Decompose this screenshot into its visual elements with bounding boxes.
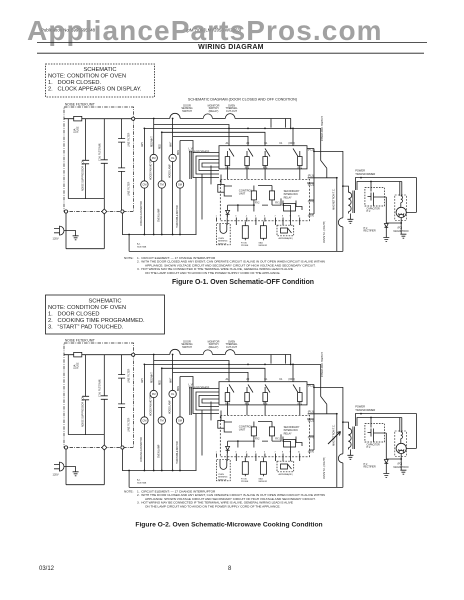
svg-text:RY1: RY1: [275, 203, 280, 205]
svg-text:9: 9: [290, 216, 291, 218]
svg-text:2: 2: [226, 216, 227, 218]
svg-text:SCHEMATIC DIAGRAM (DOOR CLOSED: SCHEMATIC DIAGRAM (DOOR CLOSED AND OFF C…: [188, 98, 297, 102]
relay RY2: [247, 149, 253, 169]
wire: [180, 118, 203, 120]
svg-text:(PL4): (PL4): [308, 214, 314, 217]
wire: spare pin stubs: [227, 222, 300, 226]
svg-text:ANTENNA(RF): ANTENNA(RF): [279, 237, 293, 240]
oven sensor box: [217, 224, 231, 245]
door sensing switch S1: [170, 113, 180, 118]
ground (rectifier): [383, 238, 389, 242]
svg-text:RY2: RY2: [255, 203, 260, 205]
svg-text:NOISE SUPPRESSOR COIL: NOISE SUPPRESSOR COIL: [82, 159, 85, 191]
svg-text:PROBE: PROBE: [241, 245, 249, 247]
wire: nested bus B: [144, 127, 320, 129]
svg-text:TM: TM: [160, 183, 164, 187]
gas sensor resistor: [260, 226, 266, 239]
svg-text:OVEN LAMP: OVEN LAMP: [158, 208, 161, 222]
svg-text:B1: B1: [264, 142, 268, 145]
svg-text:03/12: 03/12: [39, 566, 55, 572]
publication number line: [41, 27, 242, 32]
svg-text:NOTE: CONDITION OF OVEN: NOTE: CONDITION OF OVEN: [48, 305, 126, 311]
junction dots: [237, 204, 255, 206]
svg-text:(PL3): (PL3): [308, 175, 314, 178]
svg-text:LINE FILTER: LINE FILTER: [127, 132, 130, 147]
svg-text:MAGNETRON T.C.: MAGNETRON T.C.: [333, 188, 336, 210]
fig2 note text block: [124, 489, 325, 508]
svg-text:Figure O-1. Oven Schematic-OFF: Figure O-1. Oven Schematic-OFF Condition: [172, 279, 314, 286]
relay box: [219, 146, 307, 169]
header rule bottom: [37, 52, 424, 54]
header rule top: [37, 42, 427, 44]
wire: motor column 4: [172, 119, 174, 235]
resistor R1: [251, 191, 256, 200]
svg-text:CM: CM: [142, 183, 146, 187]
svg-text:3: 3: [235, 216, 236, 218]
fig2 condition note box: [46, 295, 165, 334]
svg-text:C1: C1: [279, 142, 283, 145]
svg-text:OVEN: OVEN: [218, 238, 224, 240]
wire: control internal: [224, 186, 302, 218]
svg-text:NOISE FILTER UNIT: NOISE FILTER UNIT: [65, 103, 95, 107]
resistor R2: [269, 191, 274, 200]
svg-text:ON THE LAMP CIRCUIT AND TO AVO: ON THE LAMP CIRCUIT AND TO AVOID ON THE …: [145, 505, 281, 509]
svg-text:NOTE:: NOTE:: [124, 256, 134, 260]
stirrer motor SM: [176, 181, 183, 188]
svg-text:(OFF): (OFF): [288, 142, 295, 145]
wire color labels: [142, 136, 180, 155]
svg-text:8: 8: [228, 566, 232, 572]
relay RY4: [265, 149, 270, 169]
svg-text:CAPACITOR: CAPACITOR: [367, 207, 381, 210]
magnetron V1: [395, 195, 407, 221]
PL pin labels: [308, 149, 314, 218]
svg-text:(PL5): (PL5): [308, 200, 314, 203]
control unit box: [220, 179, 309, 221]
svg-text:10: 10: [298, 216, 300, 218]
svg-text:ON THE LAMP CIRCUIT AND TO AVO: ON THE LAMP CIRCUIT AND TO AVOID ON THE …: [145, 271, 281, 275]
svg-text:3. “START” PAD TOUCHED.: 3. “START” PAD TOUCHED.: [48, 325, 124, 331]
line filter capacitors: [118, 119, 125, 210]
secondary interlock relay coil: [284, 204, 296, 212]
membrane key panel: [277, 225, 294, 236]
wire: relay contact stubs: [292, 128, 294, 145]
wires from relay area to PL column: [307, 149, 314, 215]
svg-text:HOOD FAN MOTOR: HOOD FAN MOTOR: [150, 159, 153, 180]
svg-text:1. DOOR CLOSED.: 1. DOOR CLOSED.: [48, 80, 102, 86]
wire: drop to bottom bus: [128, 235, 130, 252]
svg-text:GRY: GRY: [142, 142, 144, 147]
wire: PL3 return line: [308, 178, 337, 252]
svg-text:(PL2): (PL2): [308, 183, 314, 186]
fig2 power flow arrow: [328, 432, 341, 445]
relay RY5: [293, 149, 300, 169]
H.V. capacitor C3: [365, 188, 385, 206]
svg-text:MAGNETRON: MAGNETRON: [394, 230, 409, 233]
svg-text:1: 1: [216, 216, 217, 218]
fig2 oven schematic (copy of shared drawing): [53, 339, 417, 488]
svg-text:4: 4: [246, 216, 247, 218]
svg-text:BRN: BRN: [178, 150, 180, 155]
terminal node L: [64, 210, 67, 213]
wire: bus to relay column: [235, 119, 291, 129]
svg-text:(RELAY): (RELAY): [209, 110, 219, 113]
junction dots: [144, 118, 294, 134]
svg-text:(FC): (FC): [398, 228, 403, 230]
capacitor C.M. filter: [101, 119, 108, 199]
svg-text:HOOD LAMP: HOOD LAMP: [168, 164, 171, 178]
AC plug P1: [54, 226, 66, 235]
svg-text:C.M. FILTER(M): C.M. FILTER(M): [99, 143, 102, 161]
svg-text:AppliancePartsPros.com: AppliancePartsPros.com: [27, 15, 383, 46]
connector pin row: [217, 218, 300, 222]
noise suppressor coil + capacitor: [82, 119, 89, 199]
magnetron thermal cutout: [338, 218, 343, 227]
diode D1: [226, 210, 230, 214]
svg-text:LINE FILTER: LINE FILTER: [127, 181, 130, 196]
ground (transformer): [347, 219, 353, 223]
svg-text:INTERLOCK SWITCH: INTERLOCK SWITCH: [321, 116, 324, 141]
wire: nested bus C: [162, 132, 265, 145]
svg-text:7: 7: [275, 216, 276, 218]
svg-text:2. CLOCK APPEARS ON DISPLAY.: 2. CLOCK APPEARS ON DISPLAY.: [48, 87, 142, 93]
wire: feed to power transformer: [314, 151, 343, 251]
svg-text:GAS: GAS: [258, 241, 263, 244]
svg-text:WHT: WHT: [170, 141, 172, 147]
svg-text:TRANSFORMER: TRANSFORMER: [355, 172, 375, 176]
svg-text:1. DOOR CLOSED: 1. DOOR CLOSED: [48, 312, 100, 318]
node labels A1 A2 B1 C1 (OFF): [226, 142, 296, 145]
fig1 condition note box: [46, 64, 155, 97]
wire: plug to chassis ground: [66, 231, 76, 236]
svg-text:2. COOKING TIME PROGRAMMED.: 2. COOKING TIME PROGRAMMED.: [48, 318, 145, 324]
secondary interlock relay label: [284, 190, 300, 199]
svg-text:SWITCH: SWITCH: [182, 110, 192, 113]
svg-text:RELAY: RELAY: [284, 196, 292, 199]
svg-text:NOTE: CONDITION OF OVEN: NOTE: CONDITION OF OVEN: [48, 74, 126, 80]
svg-text:OL: OL: [171, 156, 175, 160]
connector CN2: [218, 184, 224, 192]
wire: bottom neutral bus: [129, 250, 343, 252]
wire: motor column 2: [153, 119, 155, 235]
svg-text:8: 8: [282, 216, 283, 218]
wire: top bus to switches: [135, 118, 170, 120]
pin numbers: [216, 216, 300, 218]
junction dots on motor-return bus: [128, 234, 181, 236]
svg-text:SUB TAB: SUB TAB: [137, 246, 147, 249]
ground (chassis): [73, 236, 79, 240]
svg-text:CUT-OUT: CUT-OUT: [226, 110, 238, 113]
oven thermal cut-out S3: [225, 114, 235, 119]
magnetron label: [394, 228, 409, 233]
monitor relay contact box: [271, 119, 285, 128]
monitor switch S2: [203, 114, 212, 119]
wire: relay coil leads into control unit: [228, 169, 300, 179]
svg-text:RECTIFIER: RECTIFIER: [364, 231, 376, 233]
wire: ground lead to motor-return bus: [122, 213, 196, 234]
relay RY1: [228, 149, 235, 169]
svg-text:SCHEMATIC: SCHEMATIC: [83, 67, 116, 73]
H.V. rectifier D2: [384, 197, 388, 238]
wire: motor column 3: [161, 132, 163, 234]
wire: neutral return loop: [66, 213, 104, 248]
svg-text:FOOD: FOOD: [241, 242, 248, 244]
svg-text:120V: 120V: [53, 237, 59, 241]
terminal node top right: [132, 117, 135, 120]
svg-text:SENSING: SENSING: [218, 241, 228, 243]
ground (magnetron): [400, 234, 406, 238]
svg-text:(PL1): (PL1): [308, 149, 314, 152]
svg-text:Figure O-2. Oven Schematic-Mic: Figure O-2. Oven Schematic-Microwave Coo…: [135, 522, 322, 529]
fig1 note text block: [124, 256, 325, 275]
motor name labels: [140, 159, 179, 228]
wire: nested bus D: [173, 136, 248, 145]
turntable motor TM: [158, 181, 165, 188]
svg-text:RED/WHT: RED/WHT: [152, 136, 154, 147]
wire: HV secondary leads: [355, 178, 416, 213]
svg-text:NOTE:: NOTE:: [124, 489, 134, 493]
terminal node G: [121, 210, 124, 213]
svg-text:WIRING DIAGRAM: WIRING DIAGRAM: [198, 44, 264, 51]
svg-text:FUSE: FUSE: [77, 126, 80, 133]
wire: coil bottoms join: [68, 199, 104, 210]
svg-text:6: 6: [264, 216, 265, 218]
junction dots: [360, 177, 402, 224]
fig1 oven schematic (shared drawing, reused for fig2): [53, 103, 417, 252]
food probe resistor: [242, 226, 248, 239]
svg-text:H.V.: H.V.: [367, 211, 372, 213]
oven lamp OL: [169, 154, 176, 161]
svg-text:TURNTABLE MOTOR: TURNTABLE MOTOR: [176, 205, 179, 228]
svg-text:H.V.: H.V.: [364, 228, 369, 230]
wire: [212, 118, 225, 120]
svg-text:OVEN T.C. (RIGHT): OVEN T.C. (RIGHT): [323, 221, 326, 243]
svg-text:SENSOR: SENSOR: [258, 245, 267, 247]
junction dots: [313, 151, 344, 188]
svg-text:A2: A2: [246, 142, 250, 145]
svg-text:SWITCH: SWITCH: [218, 243, 227, 245]
cooling fan motor CM: [141, 181, 148, 188]
wire: nested bus A: [154, 125, 229, 146]
svg-text:5: 5: [255, 216, 256, 218]
svg-text:RED: RED: [160, 144, 162, 149]
hood fan motor FM: [150, 154, 157, 161]
fuse F1 15A: [74, 116, 82, 121]
wire: internal top bus: [64, 118, 132, 120]
svg-text:A-1: A-1: [137, 243, 141, 246]
svg-text:SCHEMATIC: SCHEMATIC: [88, 299, 121, 305]
svg-text:COOLING FAN MOTOR: COOLING FAN MOTOR: [140, 201, 143, 226]
svg-text:UNIT: UNIT: [239, 192, 246, 196]
wire: left branch: [67, 119, 69, 199]
noise filter unit box: [64, 107, 134, 212]
wire: nested bus E: [180, 141, 193, 153]
svg-text:SM: SM: [178, 183, 182, 187]
terminal node N (diamond): [102, 209, 107, 214]
wire: motor column 5: [179, 141, 181, 235]
wire: hot lead terminal L down: [65, 213, 67, 249]
power transformer T1: [355, 169, 375, 176]
wire: motor column 1: [143, 128, 145, 234]
